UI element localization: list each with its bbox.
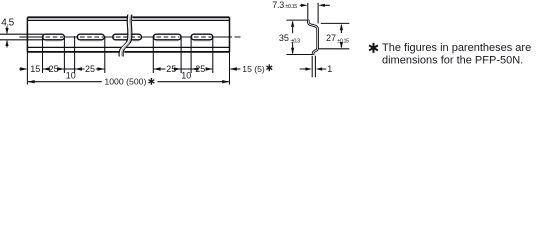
break gray shadow between curves	[122, 15, 131, 56]
arrow 35 down	[291, 48, 294, 55]
25 span line right piece	[154, 68, 181, 70]
4.5 dim extension line bottom (slot bottom)	[0, 39, 44, 41]
svg-text:35: 35	[279, 33, 289, 43]
svg-text:±0.15: ±0.15	[285, 4, 297, 10]
svg-text:15: 15	[30, 64, 40, 74]
7.3 dim arrows shafts	[300, 4, 330, 6]
4.5 dim extension line top (slot top)	[0, 33, 44, 35]
arrow 27 down	[340, 42, 343, 49]
thickness dim arrows shafts	[300, 68, 327, 70]
dim row2 line	[28, 81, 229, 83]
27 ext bottom line	[317, 48, 349, 50]
wire inner bottom line right piece	[126, 46, 230, 48]
svg-text:1: 1	[327, 64, 332, 74]
svg-text:±0.15: ±0.15	[337, 38, 349, 44]
centerline solid gap 4	[180, 36, 193, 38]
centerline dashes slot 4	[157, 36, 180, 38]
slot 2 shadow	[80, 40, 102, 42]
27 ext top line	[321, 22, 350, 24]
tick slot4 end	[180, 36, 182, 73]
thickness 1 ext lines	[312, 56, 315, 77]
svg-text:±0.3: ±0.3	[291, 38, 300, 44]
arrow 15(5) outside (tip rail end)	[230, 67, 237, 70]
35 dim leader	[292, 22, 294, 54]
svg-text:4.5: 4.5	[1, 17, 14, 28]
row2 line right part	[158, 81, 229, 83]
cross-section profile outer stroke	[308, 20, 317, 54]
svg-text:7.3: 7.3	[272, 0, 284, 10]
centerline dashes slot 1	[46, 36, 64, 38]
wire top edge left piece	[27, 16, 128, 18]
15 outside arrow shaft	[19, 68, 26, 70]
row2 line left part	[28, 81, 102, 83]
arrowheads (filled)	[5, 4, 343, 84]
slot 3 (cut by break)	[113, 34, 142, 40]
arrow 4.5 up	[5, 40, 8, 46]
arrow row1 left outside (tip t0)	[20, 67, 27, 70]
dim row1: extension ticks from slot edges	[27, 36, 229, 85]
slot 5 shadow	[194, 40, 210, 42]
slot 4 shadow	[156, 40, 178, 42]
break line right curve	[123, 15, 132, 57]
wire left end edge of rail	[26, 17, 28, 52]
svg-text:1000 (500): 1000 (500)	[104, 77, 146, 87]
centerline dashes slot 2	[80, 36, 103, 38]
slot 1 shadow	[46, 40, 62, 42]
tick slot1 end	[63, 36, 65, 73]
arrow 25a right	[57, 67, 64, 70]
tick slot2 start	[74, 36, 76, 73]
arrow 25b right	[98, 67, 105, 70]
svg-text:10: 10	[66, 70, 76, 80]
arrow 25b left	[75, 67, 82, 70]
10 span line	[64, 68, 74, 70]
slot 3 shadow	[133, 40, 139, 42]
svg-text:25: 25	[49, 64, 59, 74]
centerline solid gap 3	[141, 36, 156, 38]
centerline solid gap 2	[104, 36, 115, 38]
tick slot2 end	[104, 36, 106, 73]
centerline dashes slot 5	[194, 36, 212, 38]
extension rail right end down to row2	[229, 52, 231, 85]
arrow 25c left	[154, 67, 161, 70]
4.5 dim leader line	[6, 26, 8, 47]
arrow 25a left	[43, 67, 50, 70]
note text	[369, 42, 531, 67]
svg-text:25: 25	[166, 64, 176, 74]
arrow 4.5 down	[5, 28, 8, 34]
labels	[1, 0, 349, 86]
svg-text:27: 27	[326, 33, 336, 43]
wire inner top line left piece	[27, 19, 128, 21]
arrow 7.3 left (tip 307.8)	[301, 4, 308, 7]
centerline solid gap 1	[64, 36, 79, 38]
cross-section profile inner white	[308, 20, 317, 54]
svg-text:15 (5): 15 (5)	[242, 64, 265, 74]
wire top edge right piece	[132, 16, 229, 18]
35 ext bottom line	[286, 54, 314, 56]
break whiteout between curves	[121, 15, 130, 57]
wire bottom edge left piece	[27, 51, 120, 53]
25 span line right2	[192, 68, 213, 70]
25 span line left	[43, 68, 64, 70]
svg-text:25: 25	[85, 64, 95, 74]
centerline right extension dash	[235, 36, 241, 38]
asterisk after 15 (5)	[266, 64, 272, 71]
10 span line right	[181, 68, 191, 70]
centerline dashes slot 3	[116, 36, 140, 38]
wire bottom edge right piece	[124, 51, 229, 53]
tick slot1 start	[42, 36, 44, 73]
centerline solid left extension	[19, 36, 44, 38]
slot 1	[43, 34, 65, 40]
cross-section: 7.3 extension line left	[307, 3, 309, 20]
centerline solid right end	[212, 36, 232, 38]
arrow 25d left	[191, 67, 198, 70]
arrow row2 right	[222, 80, 229, 83]
arrow thickness left (tip 312.4)	[305, 67, 312, 70]
wire right end edge of rail	[229, 17, 231, 52]
rail side view: left piece outline	[27, 17, 128, 52]
svg-text:dimensions for the PFP-50N.: dimensions for the PFP-50N.	[382, 55, 523, 67]
svg-text:The figures in parentheses are: The figures in parentheses are	[382, 42, 531, 54]
slot 2	[77, 34, 104, 40]
27 dim leader	[340, 25, 342, 48]
arrow row2 left	[28, 80, 35, 83]
arrow 27 up	[340, 24, 343, 31]
arrow 7.3 right (tip 318.1)	[318, 4, 325, 7]
slot 5	[191, 34, 213, 40]
arrow 25c right	[174, 67, 181, 70]
arrow 35 up	[291, 20, 294, 27]
35 ext top line	[286, 19, 309, 21]
arrow 25d right	[206, 67, 213, 70]
cross-section: 7.3 extension line right	[317, 3, 319, 24]
25 span line 2	[75, 68, 104, 70]
svg-text:10: 10	[181, 70, 191, 80]
arrow thickness right (tip 314.9)	[316, 67, 323, 70]
slot 4	[153, 34, 181, 40]
tick slot5 start	[190, 36, 192, 73]
break line left curve	[119, 15, 128, 57]
15(5) outside arrow shaft	[230, 68, 240, 70]
asterisk after 1000 (500)	[149, 78, 155, 85]
wire inner top line right piece	[132, 19, 230, 21]
dim row1 line segments	[19, 68, 240, 70]
wire inner bottom line left piece	[27, 46, 122, 48]
tick slot4 start	[152, 36, 154, 73]
tick slot5 end	[212, 36, 214, 73]
rail side view: right piece outline	[124, 17, 229, 52]
note asterisk	[369, 43, 378, 53]
extension rail left end down to row2	[26, 52, 28, 85]
svg-text:25: 25	[195, 64, 205, 74]
